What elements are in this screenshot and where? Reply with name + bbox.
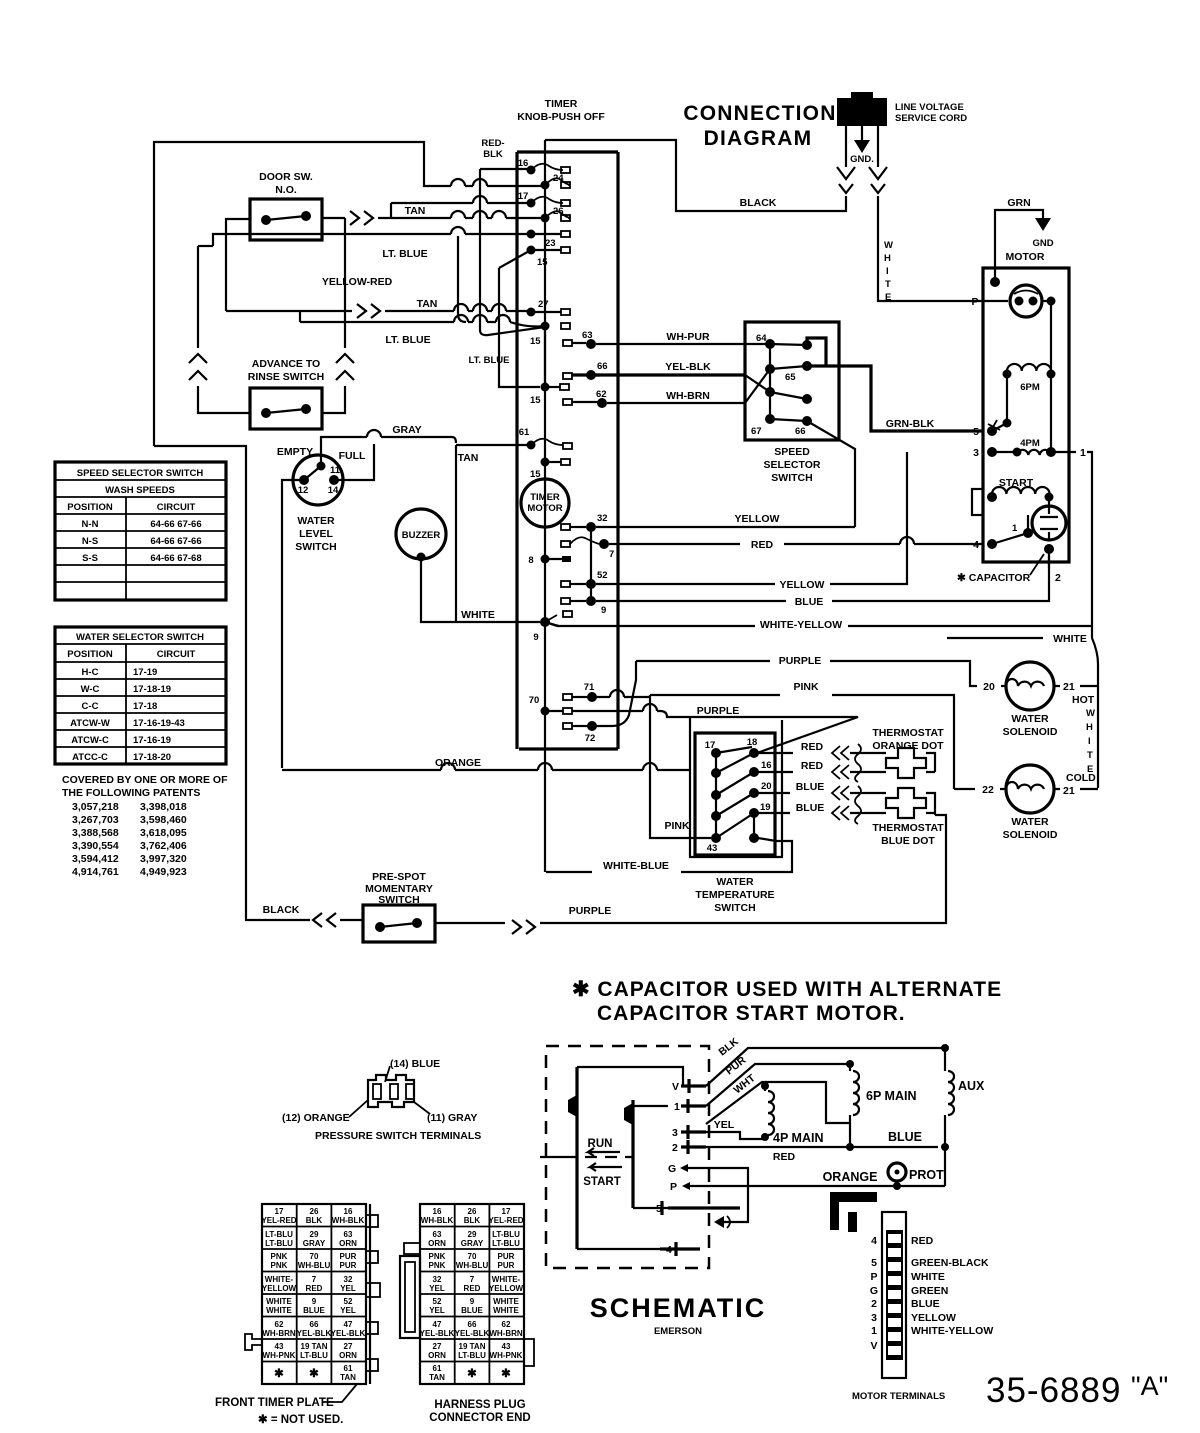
buzzer xyxy=(396,509,446,562)
svg-text:LEVEL: LEVEL xyxy=(299,528,333,540)
svg-text:YEL-RED: YEL-RED xyxy=(488,1216,523,1225)
schematic 6P MAIN coil xyxy=(845,1060,916,1151)
svg-text:WH-BRN: WH-BRN xyxy=(489,1329,523,1338)
svg-text:GRAY: GRAY xyxy=(392,424,421,436)
svg-text:P: P xyxy=(971,296,978,308)
wire PURPLE from pre-spot xyxy=(435,815,946,934)
harness plug cell labels xyxy=(420,1207,524,1382)
svg-text:C-C: C-C xyxy=(82,701,99,712)
svg-text:52: 52 xyxy=(344,1297,353,1306)
svg-text:61: 61 xyxy=(433,1364,442,1373)
wire motor 1 to white line xyxy=(1069,447,1092,626)
svg-text:PINK: PINK xyxy=(793,681,819,693)
speed selector switch label xyxy=(764,446,821,484)
svg-text:17-18: 17-18 xyxy=(133,701,157,712)
schematic terminal 2 RED xyxy=(672,1140,938,1163)
svg-text:GRAY: GRAY xyxy=(461,1239,484,1248)
svg-text:4P MAIN: 4P MAIN xyxy=(773,1131,823,1145)
svg-text:YEL: YEL xyxy=(714,1119,735,1131)
svg-text:DOOR SW.: DOOR SW. xyxy=(259,171,313,183)
svg-text:S-S: S-S xyxy=(82,553,98,564)
svg-text:9: 9 xyxy=(312,1297,317,1306)
timer contact 15a xyxy=(527,246,571,269)
svg-text:COLD: COLD xyxy=(1066,772,1096,784)
svg-text:YEL: YEL xyxy=(429,1306,445,1315)
schematic PROT xyxy=(888,1163,944,1190)
svg-text:GREEN-BLACK: GREEN-BLACK xyxy=(911,1257,989,1269)
svg-text:THERMOSTAT: THERMOSTAT xyxy=(872,822,944,834)
schematic wire PUR xyxy=(706,1054,850,1106)
timer label xyxy=(517,98,605,123)
svg-text:EMERSON: EMERSON xyxy=(654,1326,702,1337)
svg-text:ORN: ORN xyxy=(339,1351,357,1360)
wire red-blk vertical from row16 to 15b xyxy=(480,169,545,335)
motor start capacitor xyxy=(1032,497,1066,554)
svg-text:1: 1 xyxy=(1080,447,1086,459)
svg-text:RINSE SWITCH: RINSE SWITCH xyxy=(248,371,324,383)
timer contact 17 xyxy=(518,191,570,208)
svg-text:PURPLE: PURPLE xyxy=(697,705,740,717)
svg-text:ATCW-W: ATCW-W xyxy=(70,718,110,729)
svg-text:64-66 67-66: 64-66 67-66 xyxy=(150,519,201,530)
wire 71 to pink xyxy=(592,696,650,698)
wire lt blue vertical to 15c xyxy=(469,250,541,387)
svg-text:3,057,218: 3,057,218 xyxy=(72,801,119,813)
svg-text:PNK: PNK xyxy=(271,1252,288,1261)
schematic RUN START arrows xyxy=(540,1138,633,1188)
svg-text:LT-BLU: LT-BLU xyxy=(265,1230,293,1239)
wire advance right leg with arrows xyxy=(322,218,354,413)
svg-text:YEL: YEL xyxy=(340,1306,356,1315)
svg-text:4: 4 xyxy=(973,539,979,551)
svg-text:72: 72 xyxy=(585,733,596,744)
svg-text:PNK: PNK xyxy=(271,1261,288,1270)
svg-text:YELLOW: YELLOW xyxy=(780,579,825,591)
svg-text:P: P xyxy=(670,1181,677,1193)
svg-text:ORN: ORN xyxy=(428,1351,446,1360)
svg-text:PINK: PINK xyxy=(664,820,690,832)
timer contact 7 xyxy=(561,537,614,560)
svg-text:4,949,923: 4,949,923 xyxy=(140,866,187,878)
svg-text:T: T xyxy=(1087,750,1093,761)
svg-text:ATCC-C: ATCC-C xyxy=(72,752,108,763)
svg-text:BLUE: BLUE xyxy=(461,1306,483,1315)
svg-text:47: 47 xyxy=(433,1320,442,1329)
svg-text:WHITE: WHITE xyxy=(493,1306,519,1315)
svg-text:PNK: PNK xyxy=(429,1261,446,1270)
svg-text:26: 26 xyxy=(310,1207,319,1216)
svg-text:ADVANCE TO: ADVANCE TO xyxy=(252,358,320,370)
svg-text:3,388,568: 3,388,568 xyxy=(72,827,119,839)
wire 52 YELLOW to motor 3 xyxy=(596,452,907,591)
svg-text:32: 32 xyxy=(433,1275,442,1284)
timer contact 26 xyxy=(541,206,571,223)
svg-text:16: 16 xyxy=(761,760,772,771)
wire 65 GRN-BLK to motor 5 xyxy=(826,366,983,431)
wire BLACK from service cord to timer top xyxy=(545,140,846,211)
svg-text:35-6889: 35-6889 xyxy=(986,1371,1121,1410)
svg-text:YEL-BLK: YEL-BLK xyxy=(665,361,711,373)
wire 32 YELLOW xyxy=(596,513,855,527)
schematic buzzer symbol xyxy=(714,1186,748,1228)
ground symbol GND below plug xyxy=(850,126,874,165)
svg-text:ORANGE DOT: ORANGE DOT xyxy=(872,740,944,752)
svg-text:43: 43 xyxy=(275,1342,284,1351)
water temperature switch outer boundary xyxy=(690,717,782,857)
wire row 27 TAN xyxy=(226,298,531,318)
svg-text:WATER: WATER xyxy=(716,876,754,888)
svg-text:MOTOR TERMINALS: MOTOR TERMINALS xyxy=(852,1391,945,1402)
wire RED thermostat row 2 xyxy=(758,760,935,779)
svg-text:62: 62 xyxy=(596,389,607,400)
wire ORANGE xyxy=(282,757,690,770)
svg-text:MOTOR: MOTOR xyxy=(1006,251,1045,263)
svg-text:TIMER: TIMER xyxy=(530,492,560,503)
svg-text:3,398,018: 3,398,018 xyxy=(140,801,187,813)
svg-text:WATER SELECTOR SWITCH: WATER SELECTOR SWITCH xyxy=(76,632,204,643)
svg-text:61: 61 xyxy=(519,427,530,438)
svg-text:"A": "A" xyxy=(1131,1371,1168,1401)
svg-text:1: 1 xyxy=(1012,523,1018,534)
svg-text:SWITCH: SWITCH xyxy=(714,902,755,914)
timer contact 15c xyxy=(530,383,569,407)
svg-text:N-N: N-N xyxy=(82,519,99,530)
svg-text:YELLOW: YELLOW xyxy=(735,513,780,525)
svg-text:PUR: PUR xyxy=(498,1252,515,1261)
svg-text:I: I xyxy=(886,266,889,277)
svg-text:26: 26 xyxy=(553,206,564,217)
svg-text:YELLOW-RED: YELLOW-RED xyxy=(322,276,393,288)
svg-text:BLUE: BLUE xyxy=(796,802,825,814)
svg-text:3,598,460: 3,598,460 xyxy=(140,814,187,826)
wire row 23 LT. BLUE xyxy=(213,227,531,322)
timer contact 8 xyxy=(528,555,571,567)
svg-text:62: 62 xyxy=(275,1320,284,1329)
svg-text:WHITE: WHITE xyxy=(911,1271,945,1283)
svg-text:WATER: WATER xyxy=(1011,816,1049,828)
schematic terminal 3 YEL xyxy=(672,1119,765,1139)
svg-text:LT-BLU: LT-BLU xyxy=(458,1351,486,1360)
svg-text:YELLOW: YELLOW xyxy=(262,1284,297,1293)
timer contact 71 xyxy=(563,682,597,702)
svg-text:20: 20 xyxy=(983,681,995,693)
svg-text:WH-BLK: WH-BLK xyxy=(421,1216,454,1225)
svg-text:29: 29 xyxy=(310,1230,319,1239)
svg-text:LT. BLUE: LT. BLUE xyxy=(469,355,510,366)
svg-text:43: 43 xyxy=(502,1342,511,1351)
svg-text:WASH SPEEDS: WASH SPEEDS xyxy=(105,485,175,496)
svg-text:LT-BLU: LT-BLU xyxy=(492,1230,520,1239)
speed selector switch table xyxy=(55,462,226,600)
timer bus wire xyxy=(544,140,546,872)
wire RED thermostat row 1 xyxy=(758,741,935,772)
svg-text:H: H xyxy=(1086,722,1093,733)
svg-text:ATCW-C: ATCW-C xyxy=(71,735,109,746)
svg-text:15: 15 xyxy=(530,336,541,347)
svg-text:21: 21 xyxy=(1063,681,1075,693)
svg-text:TAN: TAN xyxy=(417,298,438,310)
svg-text:V: V xyxy=(672,1081,679,1093)
wire white between solenoids xyxy=(1086,687,1098,788)
wire WHITE from service cord down to motor P xyxy=(878,196,1008,303)
timer contact 61 xyxy=(519,427,572,450)
svg-text:E: E xyxy=(885,292,891,303)
svg-text:17: 17 xyxy=(518,191,529,202)
schematic 4P MAIN coil xyxy=(761,1082,823,1145)
svg-text:BLUE: BLUE xyxy=(795,596,824,608)
svg-text:YEL-RED: YEL-RED xyxy=(261,1216,296,1225)
svg-text:✱ CAPACITOR USED WITH ALTERNAT: ✱ CAPACITOR USED WITH ALTERNATE xyxy=(572,978,1002,1001)
svg-text:HARNESS PLUG: HARNESS PLUG xyxy=(434,1399,525,1411)
svg-text:TAN: TAN xyxy=(429,1373,445,1382)
wire water level 12 to left drop xyxy=(282,480,304,768)
svg-text:PUR: PUR xyxy=(340,1252,357,1261)
svg-text:70: 70 xyxy=(529,695,540,706)
wire water level 14 up xyxy=(334,444,374,480)
pressure switch terminals icon xyxy=(282,1058,481,1142)
svg-text:WH-BRN: WH-BRN xyxy=(666,390,710,402)
svg-text:SWITCH: SWITCH xyxy=(771,472,812,484)
timer contact 70 xyxy=(529,695,572,716)
timer contact 72 xyxy=(563,721,597,744)
svg-text:THERMOSTAT: THERMOSTAT xyxy=(872,727,944,739)
svg-text:52: 52 xyxy=(597,570,608,581)
svg-text:RED: RED xyxy=(773,1151,796,1163)
svg-text:WHITE-: WHITE- xyxy=(265,1275,294,1284)
motor terminals connector xyxy=(830,1192,993,1402)
svg-text:TIMER: TIMER xyxy=(545,98,578,110)
schematic label xyxy=(590,1293,767,1337)
svg-text:WHITE-YELLOW: WHITE-YELLOW xyxy=(760,619,842,631)
svg-text:THE FOLLOWING PATENTS: THE FOLLOWING PATENTS xyxy=(62,787,200,799)
svg-text:3,390,554: 3,390,554 xyxy=(72,840,119,852)
wire PURPLE2 from 70 to temp switch 18 xyxy=(572,704,858,753)
svg-text:17-18-20: 17-18-20 xyxy=(133,752,171,763)
svg-text:63: 63 xyxy=(344,1230,353,1239)
svg-text:17-18-19: 17-18-19 xyxy=(133,684,171,695)
thermostat orange dot xyxy=(855,727,944,782)
patents note xyxy=(62,774,228,878)
svg-text:32: 32 xyxy=(597,513,608,524)
svg-text:WHITE: WHITE xyxy=(266,1306,292,1315)
svg-text:3,997,320: 3,997,320 xyxy=(140,853,187,865)
svg-text:N-S: N-S xyxy=(82,536,98,547)
svg-text:2: 2 xyxy=(871,1298,877,1310)
timer contact 9 white junction xyxy=(533,611,572,643)
svg-text:3: 3 xyxy=(672,1127,678,1139)
svg-text:YEL-BLK: YEL-BLK xyxy=(455,1329,490,1338)
svg-text:YELLOW: YELLOW xyxy=(489,1284,524,1293)
svg-text:PURPLE: PURPLE xyxy=(569,905,612,917)
svg-text:WHITE-: WHITE- xyxy=(492,1275,521,1284)
svg-text:5: 5 xyxy=(973,426,979,438)
title CONNECTION DIAGRAM xyxy=(683,102,836,150)
svg-text:17: 17 xyxy=(705,740,716,751)
svg-text:WH-PNK: WH-PNK xyxy=(490,1351,523,1360)
svg-text:1: 1 xyxy=(674,1101,680,1113)
svg-text:8: 8 xyxy=(528,555,533,566)
svg-text:SCHEMATIC: SCHEMATIC xyxy=(590,1293,767,1323)
svg-text:18: 18 xyxy=(747,737,758,748)
svg-text:4,914,761: 4,914,761 xyxy=(72,866,119,878)
svg-text:PNK: PNK xyxy=(429,1252,446,1261)
wire white right side xyxy=(947,626,1098,687)
svg-text:9: 9 xyxy=(470,1297,475,1306)
svg-text:16: 16 xyxy=(344,1207,353,1216)
svg-text:3,762,406: 3,762,406 xyxy=(140,840,187,852)
svg-text:BLK: BLK xyxy=(483,149,503,160)
svg-text:BLACK: BLACK xyxy=(740,197,777,209)
svg-text:4: 4 xyxy=(666,1244,672,1256)
svg-text:GREEN: GREEN xyxy=(911,1285,948,1297)
svg-text:WH-PUR: WH-PUR xyxy=(666,331,710,343)
svg-text:26: 26 xyxy=(468,1207,477,1216)
svg-text:LT. BLUE: LT. BLUE xyxy=(382,248,427,260)
timer contact 62 xyxy=(563,389,607,408)
schematic terminal V xyxy=(672,1079,706,1093)
svg-text:64-66 67-68: 64-66 67-68 xyxy=(150,553,201,564)
svg-text:29: 29 xyxy=(468,1230,477,1239)
schematic terminal 1 xyxy=(674,1099,706,1113)
svg-text:SPEED SELECTOR SWITCH: SPEED SELECTOR SWITCH xyxy=(77,468,204,479)
wire door switch left leg xyxy=(226,219,250,311)
svg-text:67: 67 xyxy=(751,426,762,437)
wire BLACK to pre-spot switch xyxy=(154,446,363,927)
svg-text:4PM: 4PM xyxy=(1020,438,1040,449)
svg-text:66: 66 xyxy=(310,1320,319,1329)
svg-text:15: 15 xyxy=(530,395,541,406)
service cord leads with arrowheads xyxy=(837,126,887,193)
svg-text:LT-BLU: LT-BLU xyxy=(300,1351,328,1360)
wire WHITE-YELLOW xyxy=(545,619,1092,631)
svg-text:WHITE: WHITE xyxy=(266,1297,292,1306)
timer box xyxy=(517,152,618,749)
svg-text:P: P xyxy=(870,1271,877,1283)
wire 72 to purple xyxy=(592,661,636,726)
wire 7 RED to motor 4 xyxy=(609,537,983,551)
svg-text:AUX: AUX xyxy=(958,1079,985,1093)
svg-text:PUR: PUR xyxy=(340,1261,357,1270)
svg-text:ORN: ORN xyxy=(339,1239,357,1248)
svg-text:6P MAIN: 6P MAIN xyxy=(866,1089,916,1103)
svg-text:43: 43 xyxy=(707,843,718,854)
svg-text:WHITE-YELLOW: WHITE-YELLOW xyxy=(911,1325,993,1337)
svg-text:W-C: W-C xyxy=(81,684,100,695)
schematic terminal G xyxy=(668,1163,748,1186)
svg-text:LINE VOLTAGE: LINE VOLTAGE xyxy=(895,102,964,113)
svg-text:3: 3 xyxy=(871,1312,877,1324)
svg-text:65: 65 xyxy=(785,372,796,383)
timer contact 16 xyxy=(518,158,570,175)
svg-text:3,267,703: 3,267,703 xyxy=(72,814,119,826)
motor terminal 5 xyxy=(973,420,1007,438)
motor 4PM winding terminal 3 xyxy=(973,438,1069,459)
schematic cam 1-5 xyxy=(624,1100,740,1215)
wire BLUE thermostat row 2 xyxy=(758,802,935,820)
svg-text:WH-BLU: WH-BLU xyxy=(456,1261,489,1270)
motor box xyxy=(983,251,1069,562)
svg-text:CAPACITOR START MOTOR.: CAPACITOR START MOTOR. xyxy=(597,1002,906,1025)
svg-text:PRESSURE SWITCH TERMINALS: PRESSURE SWITCH TERMINALS xyxy=(315,1130,481,1142)
water temperature switch label xyxy=(695,876,774,914)
svg-text:ORANGE: ORANGE xyxy=(823,1170,878,1184)
svg-text:5: 5 xyxy=(871,1257,877,1269)
svg-text:17-19: 17-19 xyxy=(133,667,157,678)
svg-text:70: 70 xyxy=(468,1252,477,1261)
svg-text:7: 7 xyxy=(470,1275,475,1284)
timer contact 63 xyxy=(563,330,596,349)
svg-text:YEL-BLK: YEL-BLK xyxy=(297,1329,332,1338)
harness plug grid xyxy=(400,1204,534,1384)
svg-text:GND: GND xyxy=(1032,238,1053,249)
wire top loop to row 24 xyxy=(154,142,545,446)
svg-text:GRN: GRN xyxy=(1007,197,1030,209)
svg-text:✱ CAPACITOR: ✱ CAPACITOR xyxy=(957,572,1031,584)
wire row 17 xyxy=(391,203,531,217)
svg-text:WH-BLU: WH-BLU xyxy=(298,1261,331,1270)
wire 62 WH-BRN xyxy=(607,390,745,403)
wire 66 YEL-BLK xyxy=(596,361,745,375)
svg-text:BLUE: BLUE xyxy=(911,1298,940,1310)
wire TAN bracket into timer left xyxy=(456,445,478,622)
svg-text:32: 32 xyxy=(344,1275,353,1284)
wire GRN with ground xyxy=(990,197,1054,287)
svg-text:COVERED BY ONE OR MORE OF: COVERED BY ONE OR MORE OF xyxy=(62,774,228,786)
svg-text:17: 17 xyxy=(502,1207,511,1216)
svg-text:23: 23 xyxy=(545,238,556,249)
svg-text:63: 63 xyxy=(582,330,593,341)
svg-text:✱: ✱ xyxy=(309,1368,319,1380)
timer contact 24 xyxy=(541,173,571,190)
svg-text:19: 19 xyxy=(760,802,771,813)
svg-text:WHITE-BLUE: WHITE-BLUE xyxy=(603,860,669,872)
timer contact 27 xyxy=(527,299,571,317)
wire pink branch to 43 xyxy=(650,695,711,838)
svg-text:(11) GRAY: (11) GRAY xyxy=(427,1112,477,1124)
svg-text:YEL: YEL xyxy=(340,1284,356,1293)
schematic terminal P ORANGE xyxy=(670,1170,945,1193)
svg-text:I: I xyxy=(1088,736,1091,747)
svg-text:17-16-19-43: 17-16-19-43 xyxy=(133,718,185,729)
svg-text:1: 1 xyxy=(871,1325,877,1337)
svg-text:2: 2 xyxy=(672,1142,678,1154)
door switch DOOR SW. N.O. xyxy=(250,171,322,240)
cold water solenoid xyxy=(1003,765,1098,841)
motor START winding xyxy=(972,477,1054,515)
svg-text:21: 21 xyxy=(1063,785,1075,797)
timer contact 52 xyxy=(561,570,608,589)
svg-text:POSITION: POSITION xyxy=(67,649,113,660)
svg-text:LT-BLU: LT-BLU xyxy=(265,1239,293,1248)
svg-text:GND.: GND. xyxy=(850,154,874,165)
svg-text:SOLENOID: SOLENOID xyxy=(1003,829,1058,841)
svg-text:PROT: PROT xyxy=(909,1168,944,1182)
svg-text:6PM: 6PM xyxy=(1020,382,1040,393)
svg-text:22: 22 xyxy=(982,784,994,796)
svg-text:WHITE: WHITE xyxy=(461,609,495,621)
svg-text:62: 62 xyxy=(502,1320,511,1329)
svg-text:7: 7 xyxy=(609,549,614,560)
svg-text:SPEED: SPEED xyxy=(774,446,810,458)
svg-text:HOT: HOT xyxy=(1072,694,1095,706)
label RED-BLK xyxy=(481,138,504,160)
schematic dashed box xyxy=(546,1046,709,1268)
svg-text:64-66 67-66: 64-66 67-66 xyxy=(150,536,201,547)
motor 6PM winding xyxy=(1003,364,1056,428)
svg-text:YEL: YEL xyxy=(429,1284,445,1293)
svg-text:52: 52 xyxy=(433,1297,442,1306)
svg-text:BLK: BLK xyxy=(306,1216,323,1225)
